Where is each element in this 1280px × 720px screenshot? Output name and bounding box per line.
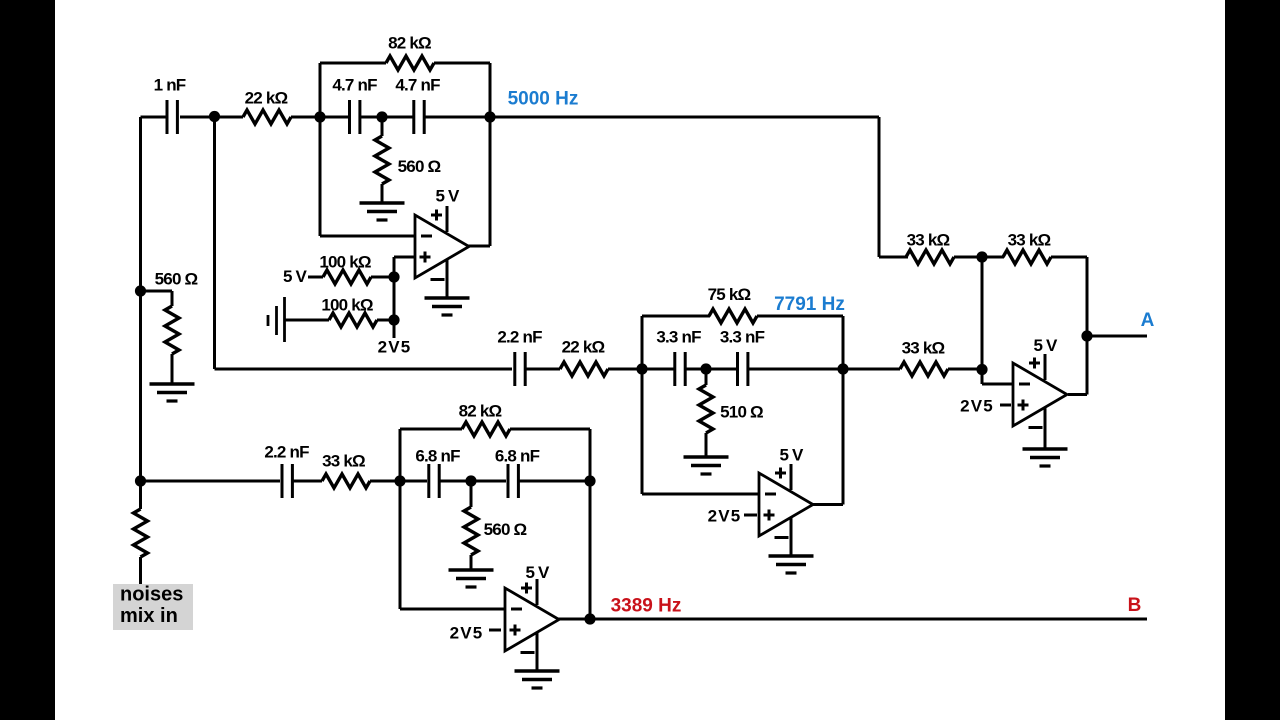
op-amp U3 positive supply pin <box>1029 354 1045 380</box>
node A output <box>1081 330 1092 341</box>
svg-text:5 V: 5 V <box>1033 336 1058 355</box>
wire filter2 top rail right <box>757 315 843 318</box>
svg-text:A: A <box>1141 310 1155 331</box>
node B output <box>584 613 595 624</box>
node filter2 middle <box>700 363 711 374</box>
label 33 kohm sum feedback <box>1008 231 1051 250</box>
svg-text:noises: noises <box>120 584 183 606</box>
wire between 6.8 nF caps <box>440 480 506 483</box>
label 82 kohm filter3 <box>459 402 502 421</box>
svg-text:560 Ω: 560 Ω <box>398 157 441 176</box>
svg-text:75 kΩ: 75 kΩ <box>708 285 751 304</box>
ground at op-amp U2 <box>769 556 814 573</box>
node sum inverting <box>976 364 987 375</box>
label 560 ohm filter1 <box>398 157 441 176</box>
resistor 510 Ω <box>699 385 713 433</box>
resistor 560 Ω filter1 <box>375 136 389 184</box>
label 4.7 nF second <box>395 76 440 95</box>
label 560 ohm left <box>155 270 198 289</box>
wire between 4.7 nF caps <box>361 116 414 119</box>
resistor 22 kΩ (filter1 input) <box>243 110 291 124</box>
op-amp U2 negative supply pin <box>775 518 792 556</box>
wire R33k to node filter3 <box>370 480 427 483</box>
wire noise source stub <box>139 481 142 509</box>
wire resistor to noise box <box>139 557 142 584</box>
svg-text:510 Ω: 510 Ω <box>720 403 763 422</box>
wire filter2 right box vertical <box>842 316 845 505</box>
svg-text:6.8 nF: 6.8 nF <box>415 447 460 466</box>
wire tap to 560 ohm <box>141 291 173 306</box>
op-amp U3 negative supply pin <box>1029 408 1046 449</box>
node filter1 output <box>484 111 495 122</box>
svg-text:33 kΩ: 33 kΩ <box>902 339 945 358</box>
op-amp U1 <box>415 215 469 278</box>
label 6.8 nF second <box>495 447 540 466</box>
wire 5000Hz feed down <box>879 117 908 257</box>
wire filter3 top rail right <box>510 428 590 431</box>
node filter3 middle <box>465 475 476 486</box>
wire R100k upper to node <box>371 276 394 279</box>
svg-text:22 kΩ: 22 kΩ <box>562 338 605 357</box>
label 33 kohm sum input <box>907 231 950 250</box>
capacitor 2.2 nF filter2 <box>515 352 525 386</box>
node sum feedback top <box>976 251 987 262</box>
op-amp U4 positive supply pin <box>521 579 537 605</box>
wire output B <box>590 618 1147 621</box>
label 100 kohm upper <box>319 253 371 272</box>
wire R22k to node <box>291 116 349 119</box>
wire U1 inverting input <box>320 235 415 238</box>
svg-text:B: B <box>1128 595 1142 616</box>
label 22 kohm filter2 <box>562 338 605 357</box>
op-amp U3 <box>1013 363 1067 426</box>
label 82 kohm filter1 <box>388 34 431 53</box>
wire U1 output <box>467 245 490 248</box>
label 4.7 nF first <box>332 76 377 95</box>
wire filter2 top rail left <box>642 315 710 318</box>
ground at op-amp U4 <box>515 671 560 688</box>
svg-text:1 nF: 1 nF <box>154 76 186 95</box>
label 2.2 nF filter3 <box>264 443 309 462</box>
wire filter1 right box vertical <box>489 63 492 246</box>
resistor 82 kΩ feedback filter1 <box>386 56 434 70</box>
svg-text:4.7 nF: 4.7 nF <box>332 76 377 95</box>
wire 5V to R 100k <box>308 276 323 279</box>
resistor 33 kΩ sum input <box>906 250 954 264</box>
resistor 560 Ω filter3 stub <box>470 481 473 507</box>
node bias upper <box>388 271 399 282</box>
wire filter3 560 to ground <box>470 555 473 570</box>
node filter2 output <box>837 363 848 374</box>
label A <box>1141 310 1155 331</box>
label 2V5 at U1 <box>378 338 412 357</box>
wire C to R 22k filter2 <box>526 368 560 371</box>
capacitor bias short plate <box>267 315 270 326</box>
node after 1 nF cap <box>209 111 220 122</box>
svg-text:5 V: 5 V <box>779 446 804 465</box>
svg-text:5000 Hz: 5000 Hz <box>508 89 579 110</box>
ground at filter1 560 ohm <box>360 203 405 220</box>
wire filter3 output row <box>519 480 590 483</box>
wire filter2 left box vertical <box>641 316 644 494</box>
svg-text:33 kΩ: 33 kΩ <box>322 452 365 471</box>
node filter2 input <box>636 363 647 374</box>
label 2V5 at U4 <box>450 624 484 643</box>
wire filter2 output row <box>749 368 900 371</box>
label 2V5 at U2 <box>708 507 742 526</box>
wire R22k to node filter2 <box>608 368 674 371</box>
label 6.8 nF first <box>415 447 460 466</box>
wire filter1 left box vertical <box>319 63 322 236</box>
wire C to R 33k filter3 <box>293 480 322 483</box>
op-amp U2 non-inverting input mark <box>764 510 775 521</box>
label 2V5 at U3 <box>960 397 994 416</box>
svg-text:33 kΩ: 33 kΩ <box>907 231 950 250</box>
svg-text:2V5: 2V5 <box>960 397 994 416</box>
op-amp U4 negative supply pin <box>521 633 538 671</box>
wire U2 inverting input <box>642 493 759 496</box>
wire filter3 input row <box>141 480 281 483</box>
wire U3 output <box>1068 393 1087 396</box>
op-amp U2 5V power label <box>779 446 804 465</box>
node filter1 middle <box>376 111 387 122</box>
capacitor 6.8 nF second <box>508 464 518 498</box>
label 33 kohm from filter2 <box>902 339 945 358</box>
wire R to sum node <box>954 256 1004 259</box>
capacitor 6.8 nF first <box>429 464 439 498</box>
svg-text:3389 Hz: 3389 Hz <box>611 596 682 617</box>
label 33 kohm filter3 <box>322 452 365 471</box>
svg-text:2V5: 2V5 <box>378 338 412 357</box>
op-amp U1 positive supply pin <box>431 206 447 232</box>
left letterbox bar <box>0 0 55 720</box>
op-amp U1 negative supply pin <box>431 260 448 298</box>
label 22 kohm <box>245 89 288 108</box>
wire left 560 ohm to ground <box>171 354 174 384</box>
wire filter3 top rail left <box>400 428 462 431</box>
svg-text:5 V: 5 V <box>283 267 308 286</box>
op-amp U3 non-inverting input mark <box>1018 400 1029 411</box>
ground at op-amp U1 <box>425 298 470 315</box>
svg-text:5 V: 5 V <box>435 187 460 206</box>
wire 2V5 dash U3 <box>1000 404 1011 407</box>
wire filter1 top rail left <box>320 62 386 65</box>
svg-text:560 Ω: 560 Ω <box>484 520 527 539</box>
op-amp U4 inverting input mark <box>511 608 522 611</box>
capacitor bias middle plate <box>275 306 278 335</box>
wire bias cap to R 100k <box>285 319 330 322</box>
label 100 kohm lower <box>321 296 373 315</box>
label 3389 Hz <box>611 596 682 617</box>
resistor 22 kΩ filter2 <box>560 362 608 376</box>
svg-text:22 kΩ: 22 kΩ <box>245 89 288 108</box>
capacitor 1 nF <box>167 100 177 134</box>
label noises mix in <box>120 584 183 628</box>
op-amp U2 positive supply pin <box>775 464 791 490</box>
capacitor 2.2 nF filter3 <box>282 464 292 498</box>
svg-text:100 kΩ: 100 kΩ <box>321 296 373 315</box>
label B <box>1128 595 1142 616</box>
svg-text:82 kΩ: 82 kΩ <box>388 34 431 53</box>
op-amp U2 <box>759 473 813 536</box>
svg-text:4.7 nF: 4.7 nF <box>395 76 440 95</box>
capacitor 3.3 nF second <box>738 352 748 386</box>
capacitor 4.7 nF second <box>414 100 424 134</box>
wire sum feedback to output column <box>1051 257 1087 395</box>
op-amp U2 inverting input mark <box>765 493 776 496</box>
svg-text:mix in: mix in <box>120 605 178 627</box>
wire filter2 R33k to node <box>948 368 982 371</box>
wire U4 inverting input <box>400 608 505 611</box>
op-amp U4 5V power label <box>525 563 550 582</box>
resistor 82 kΩ feedback filter3 <box>462 422 510 436</box>
node filter1 input <box>314 111 325 122</box>
svg-text:6.8 nF: 6.8 nF <box>495 447 540 466</box>
wire bias node vertical <box>393 257 396 338</box>
label 3.3 nF first <box>656 328 701 347</box>
ground at op-amp U3 <box>1023 449 1068 466</box>
svg-text:100 kΩ: 100 kΩ <box>319 253 371 272</box>
capacitor 4.7 nF first <box>350 100 360 134</box>
resistor 560 Ω filter1 stub <box>381 117 384 136</box>
op-amp U4 non-inverting input mark <box>510 625 521 636</box>
wire filter1 top rail right <box>434 62 490 65</box>
wire 510 ohm to ground <box>705 433 708 457</box>
resistor 33 kΩ filter3 <box>322 474 370 488</box>
resistor 560 Ω left <box>165 306 179 354</box>
svg-text:2V5: 2V5 <box>450 624 484 643</box>
op-amp U4 <box>505 588 559 651</box>
svg-text:82 kΩ: 82 kΩ <box>459 402 502 421</box>
wire output A <box>1087 335 1147 338</box>
node filter3 output <box>584 475 595 486</box>
wire sum node to U3 input <box>982 257 1013 384</box>
svg-text:3.3 nF: 3.3 nF <box>656 328 701 347</box>
label 5 V bias <box>283 267 308 286</box>
label 3.3 nF second <box>720 328 765 347</box>
svg-text:560 Ω: 560 Ω <box>155 270 198 289</box>
label 5000 Hz <box>508 89 579 110</box>
op-amp U3 inverting input mark <box>1019 383 1030 386</box>
resistor 33 kΩ sum feedback <box>1003 250 1051 264</box>
label 510 ohm <box>720 403 763 422</box>
resistor 560 Ω filter3 <box>464 507 478 555</box>
wire C1 to R 22k <box>180 116 243 119</box>
capacitor bias tall plate <box>283 297 286 342</box>
node left filter3 tap <box>135 475 146 486</box>
wire between 3.3 nF caps <box>686 368 737 371</box>
wire R100k lower to node <box>377 319 394 322</box>
node left 560 ohm tap <box>135 285 146 296</box>
wire left input column <box>139 117 142 481</box>
wire U4 output <box>558 618 590 621</box>
op-amp U1 5V power label <box>435 187 460 206</box>
noise source box <box>113 584 193 630</box>
svg-text:33 kΩ: 33 kΩ <box>1008 231 1051 250</box>
wire 2V5 dash U2 <box>744 514 757 517</box>
wire filter1 output row <box>424 116 879 119</box>
op-amp U3 5V power label <box>1033 336 1058 355</box>
svg-text:7791 Hz: 7791 Hz <box>774 294 845 315</box>
resistor noise source <box>134 509 148 557</box>
node filter3 input <box>394 475 405 486</box>
op-amp U1 non-inverting input mark <box>420 252 431 263</box>
right letterbox bar <box>1225 0 1280 720</box>
svg-text:3.3 nF: 3.3 nF <box>720 328 765 347</box>
wire input to C1 <box>141 116 167 119</box>
label 2.2 nF filter2 <box>497 328 542 347</box>
label 7791 Hz <box>774 294 845 315</box>
label 75 kohm <box>708 285 751 304</box>
wire U1 non-inverting input <box>394 256 415 259</box>
capacitor 3.3 nF first <box>675 352 685 386</box>
svg-text:2.2 nF: 2.2 nF <box>264 443 309 462</box>
ground at filter3 560 ohm <box>449 570 494 587</box>
wire 560 ohm to ground <box>381 184 384 203</box>
resistor 100 kΩ upper <box>323 270 371 284</box>
wire filter3 left box vertical <box>399 429 402 609</box>
label 1 nF <box>154 76 186 95</box>
resistor 510 Ω stub <box>705 369 708 385</box>
ground at left 560 ohm <box>150 384 195 401</box>
wire U2 output <box>813 503 843 506</box>
wire filter3 right box vertical <box>589 429 592 619</box>
wire node to filter2 row <box>215 117 513 369</box>
svg-text:2V5: 2V5 <box>708 507 742 526</box>
resistor 100 kΩ lower <box>329 313 377 327</box>
svg-text:2.2 nF: 2.2 nF <box>497 328 542 347</box>
op-amp U1 inverting input mark <box>421 235 432 238</box>
resistor 33 kΩ from filter2 <box>900 362 948 376</box>
ground at 510 ohm <box>684 457 729 474</box>
resistor 75 kΩ feedback filter2 <box>709 309 757 323</box>
wire 2V5 dash U4 <box>489 629 501 632</box>
label 560 ohm filter3 <box>484 520 527 539</box>
node bias lower <box>388 314 399 325</box>
